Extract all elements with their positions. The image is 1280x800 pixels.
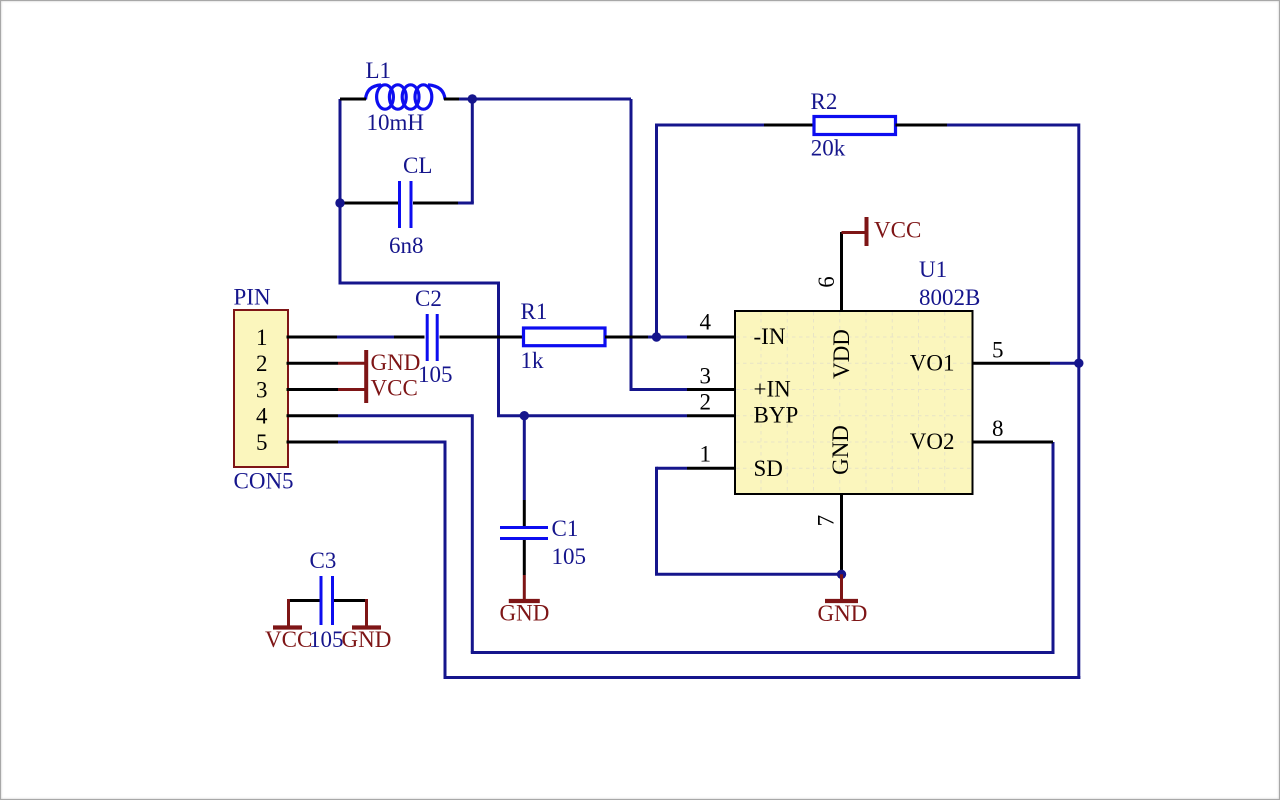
wire: CL row navy right segment: [458, 202, 474, 205]
junction dot: -IN / R2 node: [652, 332, 661, 341]
pin 6 VDD stub: [840, 232, 843, 311]
svg-text:GND: GND: [500, 601, 550, 626]
svg-text:7: 7: [814, 515, 839, 527]
svg-text:1: 1: [256, 325, 268, 350]
wire: pin4 net down x=472: [471, 414, 474, 652]
svg-text:105: 105: [309, 627, 344, 652]
svg-text:1k: 1k: [521, 348, 545, 373]
power VCC above pin6: [842, 231, 866, 234]
svg-text:GND: GND: [371, 350, 421, 375]
wire: CL right vertical up to L1 node: [471, 99, 474, 203]
svg-text:CL: CL: [403, 153, 432, 178]
svg-text:C2: C2: [415, 286, 442, 311]
svg-text:4: 4: [700, 310, 712, 335]
wire: -IN black pin stub: [687, 336, 735, 339]
svg-text:U1: U1: [919, 257, 947, 282]
svg-text:C1: C1: [552, 516, 579, 541]
L1 black stubs: [340, 98, 366, 101]
svg-text:VCC: VCC: [371, 376, 418, 401]
svg-text:VO1: VO1: [910, 350, 955, 375]
wire: vertical x=498 down to BYP row: [497, 282, 500, 416]
capacitor C2: [394, 336, 425, 339]
power VCC left of C3: [287, 599, 290, 628]
resistor R1: [524, 328, 606, 346]
capacitor C1: [523, 500, 526, 527]
svg-text:3: 3: [256, 378, 268, 403]
svg-text:BYP: BYP: [754, 403, 799, 428]
wire: R2 left vertical to -IN node: [655, 124, 658, 338]
wire: R1 right black: [605, 336, 648, 339]
wire: left node horizontal to x=498: [339, 282, 499, 285]
wire: pin4 net right: [338, 414, 472, 417]
wire: +IN row horizontal: [630, 388, 688, 391]
wire: pin4 net up to VO2: [1052, 442, 1055, 651]
svg-text:VCC: VCC: [265, 627, 312, 652]
junction dot: L1 right node: [468, 94, 477, 103]
svg-text:L1: L1: [366, 58, 392, 83]
svg-text:CON5: CON5: [234, 469, 294, 494]
wire: pin5 stub: [287, 441, 339, 444]
svg-text:8002B: 8002B: [919, 285, 980, 310]
pin 7 GND stub: [840, 494, 843, 574]
IC internal grid: [736, 312, 971, 493]
svg-text:R2: R2: [811, 89, 838, 114]
junction dot: VO1 node: [1074, 359, 1083, 368]
wire: SD net: [657, 467, 688, 470]
svg-text:VDD: VDD: [829, 329, 854, 379]
power VCC on pin3: [287, 388, 339, 391]
svg-text:5: 5: [992, 338, 1004, 363]
svg-text:105: 105: [552, 544, 587, 569]
svg-text:+IN: +IN: [754, 377, 792, 402]
svg-text:VO2: VO2: [910, 429, 955, 454]
connector J1 PIN/CON5: [234, 310, 288, 467]
ground below C1: [523, 575, 526, 600]
svg-text:2: 2: [256, 351, 268, 376]
wire: BYP row horizontal: [497, 414, 687, 417]
wire: pin1 stub: [287, 336, 338, 339]
svg-text:GND: GND: [818, 601, 868, 626]
pin 5 VO1 stub: [973, 362, 1051, 365]
IC U1 8002B body: [735, 311, 973, 494]
svg-text:3: 3: [700, 364, 712, 389]
svg-text:105: 105: [418, 362, 453, 387]
wire: pin5 net down x=445: [444, 441, 447, 678]
wire: R1 to -IN navy: [648, 336, 687, 339]
svg-text:6n8: 6n8: [389, 233, 424, 258]
junction dot: CL left node: [335, 198, 344, 207]
resistor R2: [657, 124, 765, 127]
svg-text:4: 4: [256, 404, 268, 429]
wire: L1/CL left vertical: [339, 99, 342, 283]
inductor L1: [366, 85, 446, 109]
capacitor CL: [341, 202, 398, 205]
wire: pin5 net bottom horizontal: [444, 676, 1081, 679]
svg-text:R1: R1: [521, 299, 548, 324]
svg-text:C3: C3: [310, 548, 337, 573]
svg-text:5: 5: [256, 430, 268, 455]
svg-text:-IN: -IN: [754, 324, 786, 349]
power bar pins2-3: [364, 350, 368, 403]
svg-text:PIN: PIN: [234, 285, 271, 310]
wire: R2 right vertical down (VO1 net): [1077, 124, 1080, 680]
wire: pin1 row navy to C2: [337, 336, 394, 339]
svg-text:6: 6: [814, 276, 839, 288]
svg-text:8: 8: [992, 416, 1004, 441]
junction dot: pin7/SD/GND: [837, 570, 846, 579]
power GND on pin2: [287, 362, 339, 365]
wire: pin4 stub: [287, 414, 339, 417]
wire: pin4 net bottom horizontal: [471, 651, 1055, 654]
wire: vertical from L1 node to +IN row: [630, 99, 633, 390]
wire: L1 right to x=631: [459, 98, 631, 101]
ground below pin7: [840, 574, 843, 600]
svg-text:GND: GND: [828, 425, 853, 475]
svg-text:20k: 20k: [811, 136, 846, 161]
svg-text:GND: GND: [342, 627, 392, 652]
wire: BYP black pin stub: [687, 414, 735, 417]
pin 8 VO2 stub: [973, 441, 1054, 444]
svg-text:10mH: 10mH: [367, 110, 425, 135]
wire: pin5 net right: [338, 441, 445, 444]
junction dot: BYP/C1: [520, 411, 529, 420]
svg-text:2: 2: [700, 390, 712, 415]
wire: BYP to C1 down: [523, 416, 526, 500]
power GND right of C3: [365, 599, 368, 628]
svg-text:SD: SD: [754, 456, 783, 481]
wire: +IN black pin stub: [687, 388, 735, 391]
svg-text:1: 1: [700, 442, 712, 467]
svg-text:VCC: VCC: [874, 218, 921, 243]
